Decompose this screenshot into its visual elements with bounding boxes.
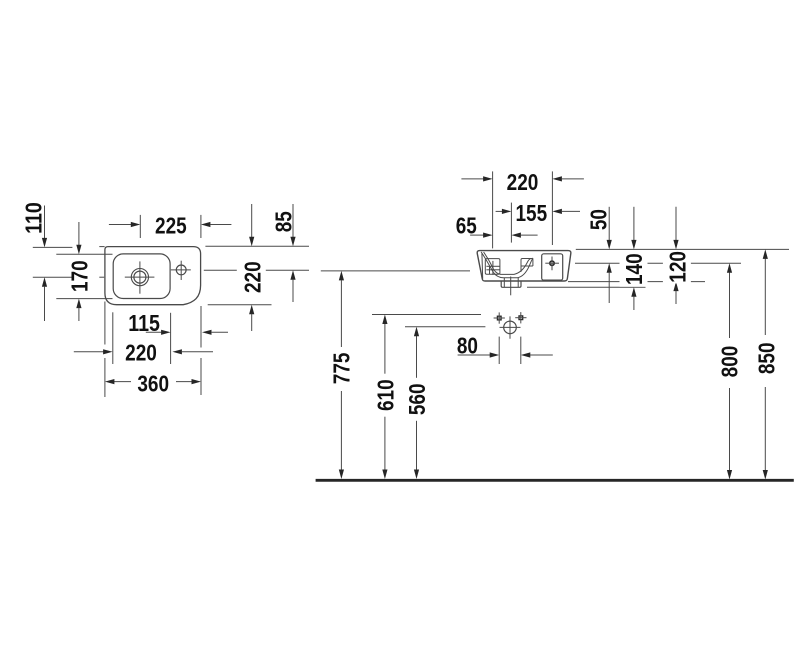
dim 360 dimension line — [114, 381, 131, 383]
plan bowl left edge extension below — [112, 312, 114, 364]
svg-text:220: 220 — [125, 339, 157, 365]
elevation drain centerline — [510, 277, 512, 296]
dim 800 label — [719, 338, 739, 388]
dim 170 upper extension line — [56, 253, 112, 255]
washbasin plan view outer outline — [105, 247, 201, 305]
dim 80 arrows — [458, 354, 491, 356]
plan drain inner circle — [134, 271, 146, 283]
floor line — [316, 479, 794, 482]
plan top edge extension right — [205, 245, 309, 247]
dim 610 label — [375, 374, 395, 417]
dim 170 lower extension line — [56, 298, 112, 300]
dim 225 dimension arrows — [109, 224, 131, 226]
elevation left rim slope curve — [481, 252, 493, 272]
elevation faucet level extension right — [575, 262, 741, 264]
dim 220 right-side dimension arrows — [251, 204, 253, 237]
elevation left pocket crosshair — [486, 265, 499, 267]
dim 80 extension lines — [498, 337, 500, 364]
elevation faucet crosshair — [545, 262, 559, 264]
dim 775 label — [331, 347, 351, 391]
dim 170 dimension arrows — [78, 222, 80, 245]
elevation drain flange extension right — [527, 286, 646, 288]
dim 155 extension line — [510, 203, 512, 243]
plan inner bowl outline — [113, 254, 170, 299]
svg-text:800: 800 — [717, 346, 743, 378]
svg-text:170: 170 — [67, 260, 93, 292]
dim 800 dimension line — [729, 272, 731, 470]
plan bottom edge extension right — [208, 304, 272, 306]
dim 110 lower extension line — [33, 276, 73, 278]
drain pipe circle — [504, 321, 517, 334]
dim 115 dimension arrows — [146, 331, 162, 333]
elevation top edge extension right — [576, 248, 789, 250]
dim 220 plan dimension arrows — [74, 351, 104, 353]
plan faucet hole circle — [176, 265, 186, 275]
elevation middle overflow pocket — [521, 259, 533, 272]
svg-text:610: 610 — [372, 379, 398, 411]
elevation left pocket inner lines — [486, 269, 499, 271]
dim 850 label — [755, 335, 775, 387]
svg-text:775: 775 — [329, 352, 355, 384]
svg-text:65: 65 — [456, 212, 477, 238]
plan top edge extension left stub — [99, 246, 104, 248]
elevation bottom edge extension right — [568, 281, 705, 283]
dim 560 dimension line — [416, 336, 418, 470]
svg-text:155: 155 — [515, 200, 547, 226]
elevation left fixing pocket — [485, 259, 500, 275]
elevation drain box inner walls — [503, 278, 505, 287]
plan drain outer circle — [131, 269, 148, 286]
left mounting hole crosshair — [494, 317, 505, 319]
dim 225 extension ticks — [139, 215, 141, 238]
svg-text:220: 220 — [239, 261, 265, 293]
elevation drain box outer — [501, 281, 521, 287]
dim 140 arrows — [633, 207, 635, 241]
dim 560 label — [407, 378, 427, 421]
dim 155 arrows — [496, 210, 503, 212]
right mounting hole crosshair — [515, 317, 526, 319]
svg-text:225: 225 — [155, 213, 187, 239]
dim 50 arrows — [608, 207, 610, 241]
elevation inner left wall line — [481, 253, 484, 278]
svg-text:220: 220 — [507, 169, 539, 195]
plan drain crosshair — [125, 276, 155, 278]
dim 65 arrows — [470, 234, 484, 236]
svg-text:140: 140 — [621, 253, 647, 285]
plan faucet crosshair — [171, 269, 191, 271]
reference line 610 level — [372, 314, 481, 316]
svg-text:110: 110 — [20, 202, 46, 234]
right mounting hole square — [519, 316, 523, 320]
plan faucet level extension right — [204, 269, 309, 271]
dim 220 elevation arrows — [461, 178, 483, 180]
dim 220 right-side label — [237, 259, 266, 295]
reference line 560 level — [405, 326, 485, 328]
dim 220 elevation extension lines — [492, 171, 494, 248]
dim 850 dimension line — [764, 258, 766, 470]
svg-text:120: 120 — [665, 251, 691, 283]
elevation bowl rim curve — [493, 258, 533, 278]
dim 610 dimension line — [384, 324, 386, 471]
elevation bowl inner curve — [492, 259, 531, 275]
svg-text:50: 50 — [586, 209, 612, 230]
dim 110 dimension arrows — [44, 206, 46, 239]
svg-text:80: 80 — [457, 332, 478, 358]
plan drain level stub left of basin — [99, 276, 104, 278]
elevation right faucet block — [542, 254, 563, 280]
svg-text:560: 560 — [404, 383, 430, 415]
dim 85 dimension arrows — [292, 204, 294, 237]
svg-text:360: 360 — [137, 370, 169, 396]
dim 120 label — [663, 250, 691, 283]
elevation inner wall slope curve — [484, 252, 493, 267]
wall reference line 775 level — [321, 270, 470, 272]
drain pipe crosshair — [500, 326, 521, 328]
plan left edge extension below basin — [104, 302, 106, 345]
left mounting hole square — [497, 316, 501, 320]
washbasin side elevation outer outline — [477, 251, 571, 281]
svg-text:850: 850 — [753, 342, 779, 374]
dim 110 upper extension line — [33, 246, 73, 248]
dim 775 dimension line — [340, 280, 342, 470]
plan right edge extension below basin — [200, 306, 202, 348]
svg-text:85: 85 — [270, 211, 296, 232]
dim 120 arrows — [675, 207, 677, 241]
dim 140 label — [620, 252, 648, 287]
elevation faucet mark circle — [550, 261, 554, 265]
svg-text:115: 115 — [128, 310, 160, 336]
plan bowl right edge extension below — [170, 313, 172, 364]
